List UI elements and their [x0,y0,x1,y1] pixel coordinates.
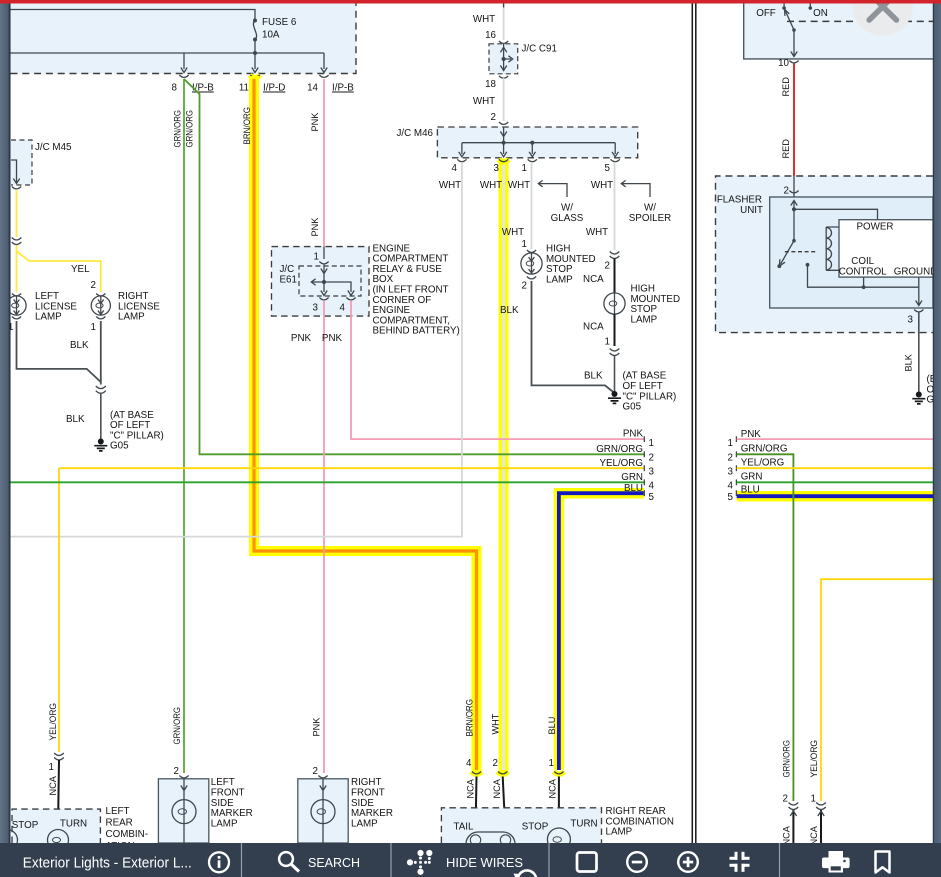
svg-text:GROUND: GROUND [894,267,938,278]
svg-text:PNK: PNK [310,217,320,237]
svg-text:TURN: TURN [570,819,597,830]
ground symbol G05 (left) [94,439,107,451]
svg-text:3: 3 [649,467,655,478]
svg-text:WHT: WHT [439,180,461,191]
svg-text:5: 5 [728,492,734,503]
E61 location text [373,243,460,336]
svg-text:1: 1 [549,758,554,769]
svg-text:GLASS: GLASS [551,213,584,224]
svg-text:ON: ON [813,8,828,19]
wire through J/C C91 [503,44,505,71]
coil control contact and wire [806,263,919,289]
arrow down entering M46 [500,132,506,137]
collapse icon [730,852,750,872]
bump below right license lamp [96,317,105,319]
svg-text:WHT: WHT [473,14,495,25]
svg-text:LAMP: LAMP [546,274,573,285]
right page wire end ticks [735,436,737,496]
svg-text:4: 4 [340,303,346,314]
left front side marker lamp box [158,779,208,843]
svg-text:11: 11 [239,83,249,94]
svg-text:CONTROL: CONTROL [839,267,887,278]
svg-text:HIDE WIRES: HIDE WIRES [446,855,523,870]
svg-text:WHT: WHT [586,227,608,238]
wire pin2 to power box [794,201,878,241]
svg-text:BLK: BLK [904,353,914,371]
svg-text:G05: G05 [623,402,642,413]
wire below fuse to pin 11 [254,40,256,70]
NCA wire with up arrow (yellow side) [820,810,822,843]
GRN horizontal wire [11,481,645,483]
zoom in icon [678,852,698,872]
svg-text:GRN/ORG: GRN/ORG [596,444,643,455]
svg-text:2: 2 [784,186,789,197]
svg-text:2: 2 [728,453,733,464]
J/C C91 pin 16 bump [499,41,508,43]
M46 pin 5 bump [611,159,620,161]
svg-text:GRN/ORG: GRN/ORG [741,444,788,455]
svg-text:BLK: BLK [66,414,85,425]
svg-text:LAMP: LAMP [211,818,238,829]
WHT wire M46 pin4 down and left [11,162,462,537]
right rear combination lamp box [441,808,601,843]
svg-text:SPOILER: SPOILER [629,213,671,224]
arrow into pin 8 [181,68,187,73]
svg-text:YEL/ORG: YEL/ORG [809,740,819,778]
lamp1 top bump [527,250,536,252]
svg-text:4: 4 [466,758,472,769]
J/C M46 junction box [437,127,637,158]
page divider double line [692,4,696,844]
svg-text:LAMP: LAMP [606,827,633,838]
bump below left license lamp [12,317,21,319]
wire end ticks pins 1-5 left page [643,436,645,496]
wire and arrow into right marker lamp [320,779,326,800]
svg-text:SEARCH: SEARCH [308,855,360,870]
pin 11 connector bump (highlighted) [250,75,260,78]
tail/stop dual filament lamp [466,832,515,856]
arrow pointing left from node [311,279,324,285]
bottom toolbar [0,843,941,877]
RED wire to flasher unit [793,64,795,177]
YEL/ORG wire from right edge turning down [821,579,933,801]
arrow down into inner box [321,269,327,274]
svg-text:Exterior Lights - Exterior L..: Exterior Lights - Exterior L... [23,855,192,872]
svg-text:RED: RED [781,139,791,159]
inline connector right page yellow [816,803,826,810]
inline connector lamp2 ground wire [610,349,620,356]
svg-text:YEL/ORG: YEL/ORG [599,458,643,469]
svg-text:4: 4 [649,481,655,492]
svg-text:YEL: YEL [71,264,90,275]
ON contact [809,4,813,10]
svg-text:1: 1 [91,322,96,333]
J/C M45 junction box [11,140,32,185]
NCA wire below lamp2 [614,314,616,346]
svg-text:WHT: WHT [591,180,613,191]
highlighted BLU wire on right page (yellow band) [737,491,933,502]
svg-text:10A: 10A [262,30,280,41]
svg-text:3: 3 [908,315,914,326]
J/C M45 pin bump [12,187,21,189]
highlighted BLU wire L to lamp pin 1 (yellow highlight band) [559,493,644,770]
svg-text:PNK: PNK [322,333,343,344]
PNK wire from E61 pin 4 down then right (to connector pin 1) [351,301,644,439]
arrow into pin 14 [321,68,327,73]
junction dot [792,207,796,211]
highlighted WHT wire from M46 pin 3 down to lamp pin 2 (yellow highlight band) [499,159,509,773]
left border bar [0,4,11,877]
wire inside J/C M45 [11,160,17,183]
wire into flasher pin 2 [793,176,795,209]
M46 pin 4 bump [457,159,466,161]
svg-text:FUSE 6: FUSE 6 [262,17,297,28]
svg-text:5: 5 [605,163,611,174]
M46 pin 1 bump [528,159,537,161]
PNK wire right page [737,438,933,440]
arrows down to M46 pins [459,152,619,157]
svg-text:2: 2 [522,281,527,292]
inline connector YEL/ORG [54,753,64,760]
E61 pin 1 bump [319,262,328,264]
svg-text:8: 8 [172,83,178,94]
arrow down inside C91 [500,66,506,71]
svg-text:PNK: PNK [312,717,322,737]
NCA wire turn lamp [558,777,560,830]
high mounted stop lamp 1 [521,253,542,274]
svg-text:NCA: NCA [583,274,604,285]
svg-text:I/P-B: I/P-B [192,83,214,94]
junction dot C91 [502,57,506,61]
svg-text:2: 2 [649,453,654,464]
BLK wire to ground G05 right [614,356,616,392]
BRN/ORG wire core [254,79,477,770]
wire and arrow into marker lamp [181,779,187,800]
svg-text:WHT: WHT [480,180,502,191]
NCA wire to left rear turn lamp [58,760,59,829]
svg-text:BLK: BLK [584,371,603,382]
svg-text:GRN/ORG: GRN/ORG [185,110,195,148]
WHT wire core [502,161,505,770]
coil symbol [826,227,839,270]
YEL/ORG vertical wire to left rear lamp [58,468,60,752]
left front side marker lamp bulb [172,800,196,843]
E61 pin 4 bump [346,298,355,300]
YEL/ORG horizontal wire [59,467,644,469]
GRN/ORG wire 2 from pin 8, down and right at y454 [184,79,644,454]
inline connector on YEL wire [12,238,22,245]
E61 pin 3 bump [319,298,328,300]
hide wires icon [407,850,433,875]
YEL wire lower segment [16,245,18,293]
svg-text:14: 14 [307,83,318,94]
J/C C91 junction box [489,44,518,74]
junction dot M46 a [502,141,506,145]
arrow into pin 11 [252,68,258,73]
svg-text:COMBIN-: COMBIN- [106,829,148,840]
ground symbol G05 (center) [608,391,621,403]
svg-text:GRN: GRN [741,472,763,483]
svg-text:2: 2 [493,758,498,769]
ground symbol right [912,392,925,404]
flasher pin 3 bump [914,310,923,312]
arrow right from C91 node [504,56,513,62]
arrow up inside C91 [500,47,506,52]
svg-text:YEL/ORG: YEL/ORG [48,703,58,741]
wire into E61 pin 1 [323,247,325,259]
right rear turn lamp bulb [547,828,570,851]
pin 8 connector bump [179,75,188,77]
left rear stop lamp bulb (clipped) [0,830,18,851]
svg-text:BLU: BLU [624,483,643,494]
flasher switch blade [777,239,795,268]
highlighted bump BRN/ORG pin 4 [471,772,481,775]
flasher unit dashed box [716,176,934,333]
svg-text:STOP: STOP [12,820,39,831]
svg-text:2: 2 [605,261,610,272]
BLK wire from left license lamp [17,321,101,382]
WHT wire from top to J/C C91 [503,4,505,41]
arrow up inside inner box [791,201,797,206]
svg-text:1: 1 [314,252,319,263]
BLU wire core [559,493,644,770]
search icon [279,852,299,871]
svg-text:NCA: NCA [466,778,476,798]
wire from blade to pin 10 [791,30,797,57]
svg-text:TURN: TURN [60,819,87,830]
junction dot below fuse [253,51,257,55]
bookmark icon [876,852,890,873]
pin 2 bump [789,191,798,193]
svg-text:GRN: GRN [621,472,643,483]
NCA wire with up arrow (green side) [792,810,794,843]
print icon [822,851,850,873]
svg-text:2: 2 [491,112,496,123]
svg-text:LEFT: LEFT [106,806,130,817]
inline connector right page green [789,803,799,810]
svg-text:WHT: WHT [502,227,524,238]
svg-text:BLK: BLK [70,340,89,351]
svg-text:POWER: POWER [856,222,893,233]
wire from node to pin 4 drop [324,282,351,292]
svg-text:BLK: BLK [500,305,519,316]
svg-text:WHT: WHT [491,713,501,734]
svg-text:YEL/ORG: YEL/ORG [741,458,785,469]
M46 pin 2 bump [499,122,508,124]
left rear turn lamp bulb [48,830,69,851]
wire from pin1 bump into inner box [323,265,325,293]
svg-text:3: 3 [494,163,500,174]
PNK wire from pin 14 down to J/C E61 [323,79,325,247]
YEL/ORG wire right page [737,467,933,469]
svg-text:UNIT: UNIT [740,205,763,216]
info icon [209,852,229,872]
svg-text:I/P-D: I/P-D [263,83,285,94]
svg-text:1: 1 [728,438,733,449]
svg-text:GRN/ORG: GRN/ORG [173,110,183,148]
arrow down E61 pin 3 [321,291,327,296]
svg-text:J/C M46: J/C M46 [397,128,434,139]
YEL wire branch to right license lamp [17,251,101,292]
lamp1 bottom bump [527,277,536,279]
undo arc button (clipped) [518,870,536,877]
inline connector on BLK ground wire [96,386,106,393]
flasher inner relay box [770,197,933,308]
svg-text:BLU: BLU [547,717,557,735]
WHT wire M46 pin5 to stop lamp 2 [614,162,616,250]
svg-text:1: 1 [522,163,527,174]
wire from left edge to fuse 6 [11,10,256,21]
svg-text:LAMP: LAMP [351,818,378,829]
svg-text:10: 10 [778,58,789,69]
svg-text:1: 1 [49,762,54,773]
svg-text:LAMP: LAMP [35,312,62,323]
svg-text:OFF: OFF [756,8,776,19]
ground drop inside flasher [916,277,922,306]
BLK wire from lamp1 to ground [532,281,614,393]
PNK wire from E61 pin 3 down to right front marker lamp [323,301,325,773]
GRN wire right page [737,481,933,483]
svg-text:J/C C91: J/C C91 [522,44,557,55]
BLK wire to ground [918,312,920,392]
svg-text:LAMP: LAMP [118,312,145,323]
svg-text:NCA: NCA [782,825,792,845]
svg-text:NCA: NCA [548,778,558,798]
svg-text:REAR: REAR [106,818,133,829]
zoom out icon [627,852,647,872]
BLK wire to ground G05 [100,394,102,440]
svg-text:STOP: STOP [522,822,549,833]
svg-text:NCA: NCA [48,775,58,795]
svg-text:NCA: NCA [492,778,502,798]
svg-text:4: 4 [728,481,734,492]
right front side marker lamp bulb [311,800,335,843]
NCA wire stop lamp [503,777,506,835]
svg-text:NCA: NCA [583,322,604,333]
wire stub at top edge [503,4,505,8]
svg-text:E61: E61 [280,274,297,285]
GRN/ORG wire 1 from pin 8 to left front marker lamp [183,79,185,773]
YEL wire from J/C M45 down to left license lamp [16,191,18,238]
WHT wire C91 to M46 [503,78,505,121]
J/C E61 inner dashed box [299,266,361,296]
svg-text:18: 18 [485,79,496,90]
svg-text:PNK: PNK [623,429,644,440]
svg-text:BLU: BLU [741,485,760,496]
BLK wire from right license lamp [100,321,102,385]
svg-text:1: 1 [522,239,527,250]
close button [852,0,913,36]
NCA wire tail lamp [476,777,477,835]
svg-text:WHT: WHT [508,180,530,191]
bus wire inside fuse box [11,53,325,69]
svg-text:WHT: WHT [473,96,495,107]
svg-text:16: 16 [485,30,496,41]
J/C E61 outer box (engine compartment relay and fuse box) [272,247,370,317]
highlighted bump WHT pin 2 [498,772,508,775]
highlighted bump BLU pin 1 [554,772,564,775]
svg-text:BRN/ORG: BRN/ORG [464,699,474,737]
svg-text:BRN/ORG: BRN/ORG [242,107,252,145]
W/ GLASS arrow [538,180,567,197]
right front side marker lamp box [298,779,348,843]
W/ SPOILER arrow [621,180,650,197]
dashed link switch to coil [785,251,816,253]
svg-text:NCA: NCA [809,825,819,845]
pin 14 connector bump [319,75,328,77]
M46 pin 3 bump (highlighted) [498,159,508,162]
arrow down J/C M45 pin [13,179,19,184]
OFF contact [782,4,786,10]
NCA wire to lamp2 [614,259,616,294]
inline connector lamp2 wht [610,252,620,259]
fit page icon [577,853,597,872]
J/C C91 pin 18 bump [499,76,508,78]
switch blade with arrow [785,9,796,31]
bump right front marker [318,776,327,778]
headlight switch box (OFF/ON) [744,4,933,59]
svg-text:2: 2 [313,766,318,777]
highlighted BRN/ORG wire from pin 11 down, right at y551, down to lamp pin 4 (yellow highlight band) [254,76,477,772]
left rear combination lamp box [12,809,100,843]
svg-text:G05: G05 [110,441,129,452]
svg-text:PNK: PNK [291,333,312,344]
svg-text:BEHIND BATTERY): BEHIND BATTERY) [373,326,460,337]
red top bar [0,0,941,4]
svg-text:2: 2 [91,280,96,291]
svg-text:TAIL: TAIL [454,822,475,833]
POWER box [839,220,933,277]
svg-text:2: 2 [174,766,179,777]
left license lamp connector bump [12,294,21,296]
svg-text:2: 2 [783,794,788,805]
wire into M46 and internal bus [462,127,615,154]
right border bar [933,4,941,877]
left license lamp L1 [7,296,26,315]
svg-text:1: 1 [811,794,816,805]
high mounted stop lamp 2 [604,293,625,314]
right license lamp connector bump [96,294,105,296]
svg-text:LAMP: LAMP [631,314,658,325]
junction node inside E61 [322,280,326,284]
svg-text:I/P-B: I/P-B [332,83,354,94]
GRN/ORG wire right page, turns down [737,454,794,801]
svg-text:5: 5 [649,492,655,503]
svg-text:4: 4 [452,163,458,174]
svg-text:PNK: PNK [310,112,320,132]
svg-text:3: 3 [313,303,319,314]
I/P fuse block (dashed junction box, top left) [11,4,357,74]
svg-text:RED: RED [781,77,791,97]
junction dot M46 b [530,141,534,145]
pin 10 bump [789,61,798,63]
svg-text:J/C M45: J/C M45 [35,142,72,153]
bump left front marker [179,776,188,778]
arrow down E61 pin 4 [348,291,354,296]
right license lamp L2 [91,296,110,315]
svg-text:1: 1 [649,438,654,449]
svg-text:GRN/ORG: GRN/ORG [782,740,792,778]
BLU wire core right page [737,494,933,498]
svg-text:3: 3 [728,467,734,478]
fuse F6 symbol [253,19,257,42]
svg-text:1: 1 [605,337,610,348]
WHT wire M46 pin1 to stop lamp [531,162,533,249]
svg-text:GRN/ORG: GRN/ORG [172,707,182,745]
